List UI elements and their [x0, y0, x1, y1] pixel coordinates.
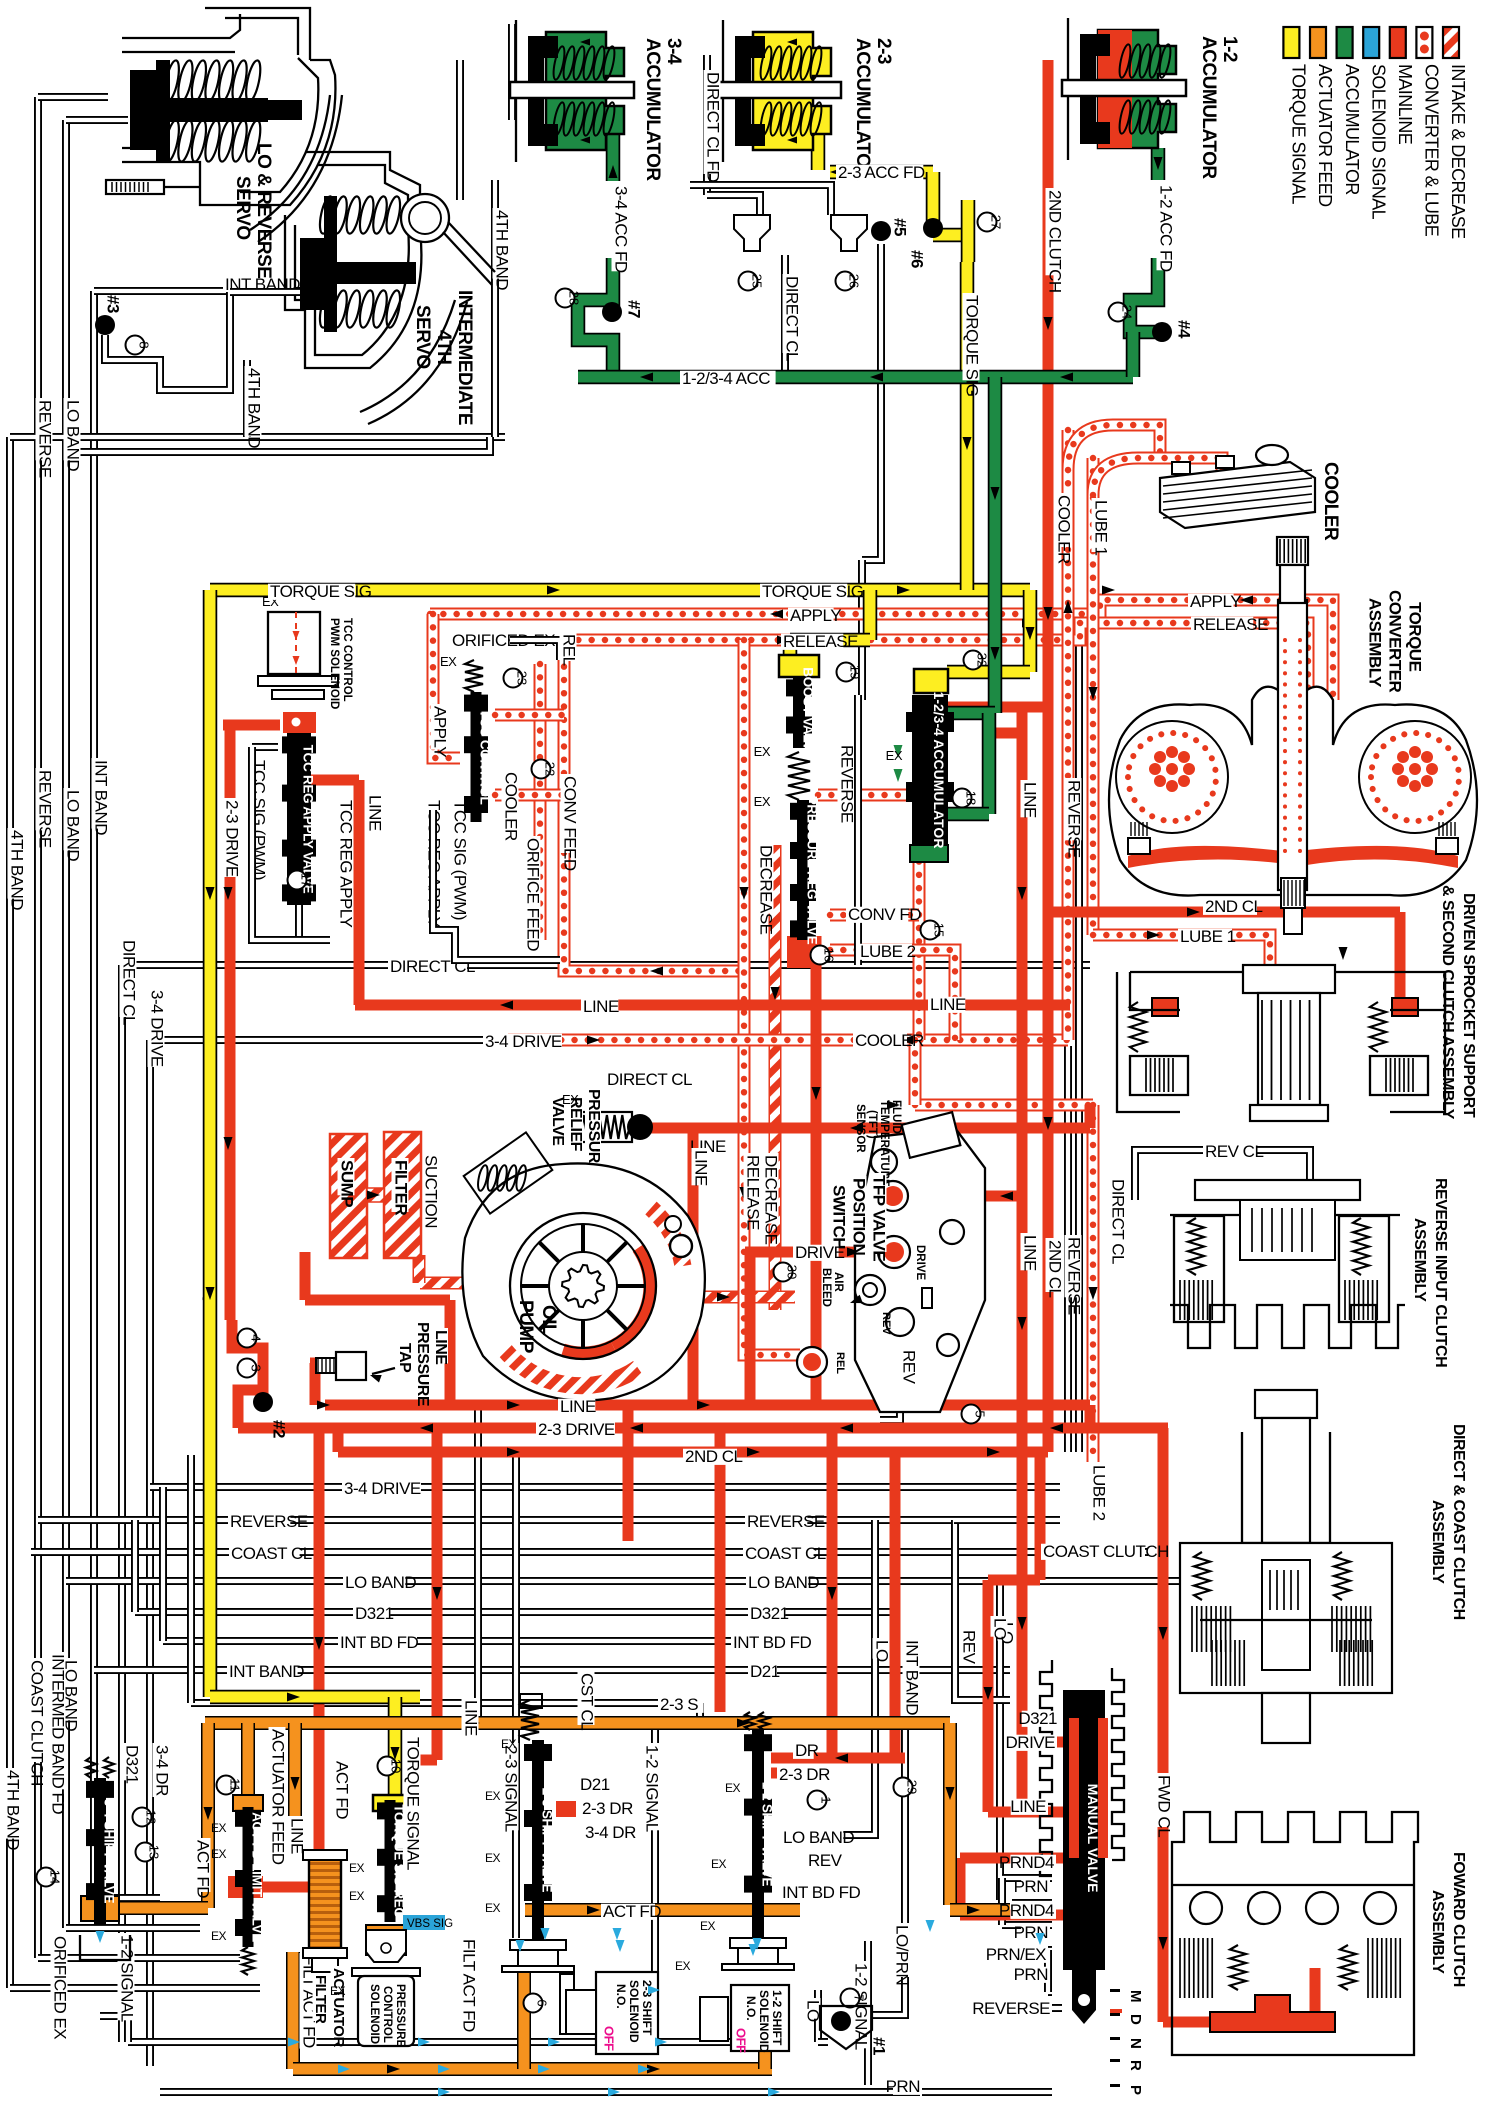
svg-text:#1: #1	[870, 2037, 889, 2055]
svg-text:SOLENOID: SOLENOID	[368, 1984, 380, 2044]
svg-text:EX: EX	[211, 1847, 227, 1861]
svg-text:R: R	[1127, 2060, 1144, 2071]
svg-text:4TH BAND: 4TH BAND	[4, 1770, 23, 1850]
svg-text:26: 26	[847, 274, 862, 288]
svg-text:28: 28	[567, 291, 582, 305]
svg-text:2-3 DR: 2-3 DR	[779, 1765, 830, 1784]
svg-text:REL: REL	[560, 634, 579, 666]
svg-text:ACT FD: ACT FD	[194, 1840, 213, 1898]
svg-text:MAINLINE: MAINLINE	[1395, 64, 1415, 145]
svg-text:LO: LO	[991, 1618, 1010, 1640]
svg-text:ACCUMULATOR: ACCUMULATOR	[1342, 64, 1362, 195]
svg-text:LINE: LINE	[560, 1397, 596, 1416]
svg-text:EX: EX	[349, 1889, 365, 1903]
svg-text:COAST CL: COAST CL	[231, 1544, 312, 1563]
svg-text:LO & REVERSE: LO & REVERSE	[253, 143, 274, 278]
svg-text:ACT FD: ACT FD	[603, 1902, 661, 1921]
svg-text:REV: REV	[900, 1350, 919, 1385]
svg-text:1-2 ACC FD: 1-2 ACC FD	[1157, 185, 1176, 272]
svg-text:TCC SIG (PWM): TCC SIG (PWM)	[451, 800, 470, 920]
svg-text:LO BAND: LO BAND	[783, 1828, 854, 1847]
svg-text:3-4 ACC FD: 3-4 ACC FD	[612, 186, 631, 273]
svg-text:LUBE 1: LUBE 1	[1180, 927, 1236, 946]
svg-text:EX: EX	[485, 1901, 501, 1915]
svg-text:4TH BAND: 4TH BAND	[493, 210, 512, 290]
svg-text:DRIVEN SPROCKET SUPPORT: DRIVEN SPROCKET SUPPORT	[1460, 893, 1477, 1118]
svg-text:EX: EX	[725, 1781, 741, 1795]
svg-text:PRESSURE: PRESSURE	[414, 1322, 431, 1407]
svg-text:VBS SIG: VBS SIG	[407, 1918, 453, 1930]
svg-text:EX: EX	[675, 1959, 691, 1973]
svg-text:DIRECT CL: DIRECT CL	[783, 276, 802, 361]
svg-text:LUBE 1: LUBE 1	[1092, 500, 1111, 556]
svg-text:32: 32	[975, 653, 990, 667]
svg-text:2-3 SIGNAL: 2-3 SIGNAL	[502, 1745, 521, 1832]
svg-text:INT BAND: INT BAND	[903, 1640, 922, 1715]
svg-text:TCC REG APPLY: TCC REG APPLY	[337, 800, 356, 927]
svg-text:DECREASE: DECREASE	[757, 845, 776, 935]
svg-text:4TH: 4TH	[433, 330, 454, 364]
svg-text:10: 10	[389, 1759, 404, 1773]
svg-text:APPLY: APPLY	[790, 606, 841, 625]
svg-text:CONVERTER & LUBE: CONVERTER & LUBE	[1422, 64, 1442, 237]
svg-text:2-3 ACC FD: 2-3 ACC FD	[838, 163, 925, 182]
svg-text:2ND CLUTCH: 2ND CLUTCH	[1046, 190, 1065, 293]
svg-text:D321: D321	[1018, 1709, 1057, 1728]
svg-text:2-3 SHIFT VALVE: 2-3 SHIFT VALVE	[540, 1788, 555, 1893]
svg-text:CST CL: CST CL	[578, 1673, 597, 1730]
svg-text:ASSEMBLY: ASSEMBLY	[1429, 1500, 1446, 1584]
svg-text:#3: #3	[104, 295, 123, 313]
svg-text:ACCUMULATOR: ACCUMULATOR	[642, 38, 663, 181]
svg-text:3-4: 3-4	[663, 38, 684, 65]
svg-text:COOLER: COOLER	[1320, 462, 1341, 541]
svg-text:LINE: LINE	[432, 1330, 449, 1365]
svg-text:ORIFICE FEED: ORIFICE FEED	[524, 838, 543, 951]
svg-text:2ND CL: 2ND CL	[1205, 897, 1263, 916]
svg-text:D21: D21	[580, 1775, 610, 1794]
svg-text:LO BAND: LO BAND	[64, 790, 83, 861]
svg-text:DIRECT & COAST CLUTCH: DIRECT & COAST CLUTCH	[1450, 1424, 1467, 1620]
svg-text:DIRECT CL: DIRECT CL	[120, 940, 139, 1025]
svg-text:CONVERTER: CONVERTER	[1386, 590, 1405, 692]
svg-text:SENSOR: SENSOR	[854, 1104, 866, 1153]
svg-text:EX: EX	[330, 1984, 346, 1998]
svg-text:ASSEMBLY: ASSEMBLY	[1366, 598, 1385, 688]
svg-text:2-3 DRIVE: 2-3 DRIVE	[538, 1420, 615, 1439]
svg-text:EX: EX	[211, 1929, 227, 1943]
svg-text:2-3 DRIVE: 2-3 DRIVE	[223, 800, 242, 877]
svg-text:DRIVE: DRIVE	[914, 1245, 926, 1280]
svg-text:REVERSE: REVERSE	[838, 745, 857, 823]
svg-text:REV: REV	[880, 1312, 892, 1335]
svg-text:23: 23	[515, 671, 530, 685]
svg-text:1-2 SIGNAL: 1-2 SIGNAL	[643, 1745, 662, 1832]
svg-text:REVERSE INPUT CLUTCH: REVERSE INPUT CLUTCH	[1432, 1178, 1449, 1367]
svg-text:TAP: TAP	[396, 1343, 413, 1373]
svg-text:4TH BAND: 4TH BAND	[8, 830, 27, 910]
svg-text:(TFT): (TFT)	[866, 1110, 878, 1139]
svg-text:25: 25	[750, 274, 765, 288]
svg-text:#7: #7	[625, 300, 644, 318]
svg-text:TORQUE SIG: TORQUE SIG	[762, 582, 863, 601]
svg-text:FOWARD CLUTCH: FOWARD CLUTCH	[1450, 1852, 1467, 1987]
svg-text:RELEASE: RELEASE	[744, 1155, 763, 1230]
svg-text:TORQUE SIG REG: TORQUE SIG REG	[392, 1804, 407, 1917]
svg-text:DIRECT CL: DIRECT CL	[607, 1070, 692, 1089]
svg-text:SWITCH: SWITCH	[830, 1185, 849, 1249]
svg-text:SERVO: SERVO	[232, 176, 253, 240]
svg-text:11: 11	[228, 1778, 243, 1792]
svg-text:INT BD FD: INT BD FD	[782, 1883, 861, 1902]
svg-text:TORQUE SIG: TORQUE SIG	[963, 295, 982, 396]
svg-text:REVERSE: REVERSE	[1065, 780, 1084, 858]
svg-text:15: 15	[932, 923, 947, 937]
svg-text:COAST CLUTCH: COAST CLUTCH	[1043, 1542, 1169, 1561]
svg-text:1: 1	[819, 1796, 834, 1803]
svg-text:SERVO: SERVO	[412, 305, 433, 369]
svg-text:TCC CONTROL: TCC CONTROL	[478, 710, 493, 805]
svg-text:SUMP: SUMP	[338, 1160, 357, 1207]
svg-text:30: 30	[785, 1265, 800, 1279]
svg-text:EX: EX	[211, 1821, 227, 1835]
svg-text:17: 17	[299, 873, 314, 887]
svg-text:ACT FD: ACT FD	[333, 1761, 352, 1819]
svg-text:SUCTION: SUCTION	[422, 1155, 441, 1228]
svg-text:LINE: LINE	[1010, 1797, 1046, 1816]
svg-text:3-4 DR: 3-4 DR	[153, 1745, 172, 1796]
svg-text:PRN: PRN	[1014, 1923, 1048, 1942]
svg-text:D321: D321	[123, 1745, 142, 1784]
svg-text:D: D	[1127, 2014, 1144, 2025]
svg-text:#5: #5	[891, 218, 910, 236]
svg-text:EX: EX	[485, 1789, 501, 1803]
svg-text:BLEED: BLEED	[820, 1268, 832, 1307]
svg-text:MANUAL VALVE: MANUAL VALVE	[1085, 1784, 1101, 1893]
svg-text:COOLER: COOLER	[502, 772, 521, 841]
svg-text:ACCUMULATOR: ACCUMULATOR	[852, 38, 873, 181]
svg-text:22: 22	[543, 762, 558, 776]
svg-text:5: 5	[973, 1410, 988, 1417]
svg-text:3-4 DRIVE: 3-4 DRIVE	[148, 990, 167, 1067]
svg-text:EX: EX	[711, 1857, 727, 1871]
svg-text:EX: EX	[501, 1737, 517, 1751]
svg-text:CONTROL: CONTROL	[381, 1986, 393, 2043]
svg-text:BOOST VALVE: BOOST VALVE	[801, 667, 816, 759]
svg-text:POSITION: POSITION	[850, 1178, 869, 1255]
svg-text:DIRECT CL FD: DIRECT CL FD	[704, 72, 723, 182]
svg-text:CONV FD: CONV FD	[848, 905, 921, 924]
svg-text:RELEASE: RELEASE	[783, 632, 858, 651]
svg-text:RELEASE: RELEASE	[1193, 615, 1268, 634]
svg-text:12: 12	[144, 1810, 159, 1824]
svg-text:INTERMEDIATE: INTERMEDIATE	[454, 290, 475, 425]
svg-text:SOLENOID SIGNAL: SOLENOID SIGNAL	[1368, 64, 1388, 220]
svg-text:D321: D321	[355, 1604, 394, 1623]
svg-text:TORQUE: TORQUE	[1406, 602, 1425, 672]
svg-text:LINE: LINE	[1021, 782, 1040, 818]
svg-text:TCC CONTROL: TCC CONTROL	[341, 618, 353, 702]
svg-text:SOLENOID: SOLENOID	[627, 1980, 641, 2043]
svg-text:PRND4: PRND4	[999, 1853, 1054, 1872]
svg-text:COAST CLUTCH: COAST CLUTCH	[28, 1660, 47, 1786]
svg-text:EX: EX	[886, 748, 903, 763]
svg-text:FILTER: FILTER	[312, 1975, 329, 2024]
svg-text:13: 13	[147, 1845, 162, 1859]
svg-text:REVERSE: REVERSE	[747, 1512, 825, 1531]
svg-text:LINE: LINE	[692, 1150, 711, 1186]
svg-text:6: 6	[535, 1999, 550, 2006]
svg-text:3-4 DR: 3-4 DR	[585, 1823, 636, 1842]
svg-text:ORIFICED EX: ORIFICED EX	[51, 1936, 70, 2039]
svg-text:OFF: OFF	[734, 2028, 749, 2053]
svg-text:REV CL: REV CL	[1205, 1142, 1263, 1161]
svg-text:ASSEMBLY: ASSEMBLY	[1429, 1890, 1446, 1974]
svg-text:N: N	[1127, 2038, 1144, 2048]
svg-text:27: 27	[989, 215, 1004, 229]
svg-text:DECREASE: DECREASE	[762, 1155, 781, 1245]
svg-text:7: 7	[852, 1994, 867, 2001]
svg-text:PWM SOLENOID: PWM SOLENOID	[328, 618, 340, 709]
svg-text:PRESSURE: PRESSURE	[394, 1984, 406, 2048]
svg-text:EX: EX	[485, 1851, 501, 1865]
svg-text:PRN: PRN	[1014, 1877, 1048, 1896]
svg-text:PRN/EX: PRN/EX	[986, 1945, 1046, 1964]
svg-text:LUBE 2: LUBE 2	[1090, 1465, 1109, 1521]
svg-text:4TH BAND: 4TH BAND	[245, 368, 264, 448]
svg-text:OIL: OIL	[538, 1305, 559, 1336]
svg-text:2ND CL: 2ND CL	[1046, 1240, 1065, 1298]
svg-text:LINE: LINE	[583, 997, 619, 1016]
svg-text:LO/PRN: LO/PRN	[893, 1925, 912, 1985]
svg-text:14: 14	[48, 1870, 63, 1884]
svg-text:REVERSE: REVERSE	[36, 400, 55, 478]
svg-text:INT BAND: INT BAND	[229, 1662, 304, 1681]
svg-text:ACT FD LIMIT VALVE: ACT FD LIMIT VALVE	[250, 1812, 265, 1942]
svg-text:REVERSE: REVERSE	[972, 1999, 1050, 2018]
svg-text:N.O.: N.O.	[744, 1996, 758, 2021]
svg-text:#4: #4	[1175, 320, 1194, 339]
svg-text:PUMP: PUMP	[515, 1300, 536, 1354]
svg-text:LINE: LINE	[462, 1700, 481, 1736]
svg-text:24: 24	[1120, 305, 1135, 319]
svg-text:APPLY: APPLY	[1190, 592, 1241, 611]
svg-text:16: 16	[822, 948, 837, 962]
svg-text:LO BAND: LO BAND	[345, 1573, 416, 1592]
svg-text:LINE: LINE	[930, 995, 966, 1014]
svg-text:REVERSE: REVERSE	[36, 770, 55, 848]
svg-text:LINE: LINE	[1021, 1235, 1040, 1271]
svg-text:3-4 SHIFT VALVE: 3-4 SHIFT VALVE	[102, 1799, 117, 1904]
svg-text:REVERSE: REVERSE	[1065, 1237, 1084, 1315]
svg-text:REL: REL	[834, 1352, 846, 1374]
svg-text:CONV FEED: CONV FEED	[561, 776, 580, 871]
svg-text:EX: EX	[754, 744, 771, 759]
svg-text:18: 18	[964, 791, 979, 805]
svg-text:2-3: 2-3	[873, 38, 894, 64]
svg-text:3-4 DRIVE: 3-4 DRIVE	[485, 1032, 562, 1051]
svg-text:EX: EX	[754, 794, 771, 809]
svg-text:ACTUATOR FEED: ACTUATOR FEED	[269, 1729, 288, 1865]
svg-text:ASSEMBLY: ASSEMBLY	[1411, 1218, 1428, 1302]
svg-text:1-2: 1-2	[1219, 36, 1240, 62]
svg-text:DR: DR	[795, 1741, 819, 1760]
svg-text:4: 4	[249, 1334, 264, 1341]
svg-text:LINE: LINE	[288, 1818, 307, 1854]
svg-text:FLUID: FLUID	[890, 1100, 902, 1134]
svg-text:TFP VALVE: TFP VALVE	[870, 1175, 889, 1261]
svg-text:29: 29	[905, 1780, 920, 1794]
svg-text:3-4 DRIVE: 3-4 DRIVE	[344, 1479, 421, 1498]
svg-text:DRIVE: DRIVE	[1006, 1733, 1056, 1752]
svg-text:APPLY: APPLY	[431, 706, 450, 757]
svg-text:PRN: PRN	[1014, 1965, 1048, 1984]
svg-text:19: 19	[848, 665, 863, 679]
svg-text:LINE: LINE	[366, 795, 385, 831]
svg-text:FILT ACT FD: FILT ACT FD	[460, 1939, 479, 2032]
svg-text:PRND4: PRND4	[999, 1901, 1054, 1920]
svg-text:EX: EX	[562, 1092, 579, 1107]
svg-text:M: M	[1127, 1990, 1144, 2002]
svg-text:INTAKE & DECREASE: INTAKE & DECREASE	[1448, 64, 1468, 239]
svg-text:8: 8	[137, 341, 152, 348]
svg-text:TORQUE SIG: TORQUE SIG	[270, 582, 371, 601]
svg-text:#6: #6	[908, 250, 927, 268]
svg-text:1-2/3-4 ACCUMULATOR: 1-2/3-4 ACCUMULATOR	[931, 692, 947, 849]
svg-text:PRESSURE REG VALVE: PRESSURE REG VALVE	[805, 796, 820, 945]
svg-text:LO: LO	[873, 1640, 892, 1662]
svg-text:SOLENOID: SOLENOID	[757, 1990, 771, 2053]
svg-text:LO BAND: LO BAND	[748, 1573, 819, 1592]
svg-text:2-3 S: 2-3 S	[660, 1695, 698, 1714]
svg-text:COAST CL: COAST CL	[745, 1544, 826, 1563]
svg-text:1-2/3-4 ACC: 1-2/3-4 ACC	[682, 369, 770, 388]
svg-text:INT BAND: INT BAND	[92, 760, 111, 835]
svg-text:P: P	[1127, 2085, 1144, 2095]
svg-text:1-2 SHIFT: 1-2 SHIFT	[770, 1990, 784, 2046]
svg-text:EX: EX	[349, 1861, 365, 1875]
svg-text:EX: EX	[440, 654, 457, 669]
svg-text:DIRECT CL: DIRECT CL	[1109, 1179, 1128, 1264]
svg-text:OFF: OFF	[602, 2026, 617, 2051]
svg-text:PRN: PRN	[886, 2077, 920, 2096]
svg-text:LO BAND: LO BAND	[64, 400, 83, 471]
svg-text:REV: REV	[808, 1851, 843, 1870]
svg-text:ACTUATOR: ACTUATOR	[330, 1968, 347, 2047]
svg-text:3: 3	[249, 1364, 264, 1371]
svg-text:ACCUMULATOR: ACCUMULATOR	[1198, 36, 1219, 179]
svg-text:REV: REV	[960, 1630, 979, 1665]
svg-text:D321: D321	[750, 1604, 789, 1623]
svg-text:INT BD FD: INT BD FD	[340, 1633, 419, 1652]
svg-text:D21: D21	[750, 1662, 780, 1681]
svg-text:1-2 SIGNAL: 1-2 SIGNAL	[118, 1935, 137, 2022]
svg-text:FILTER: FILTER	[392, 1160, 411, 1215]
svg-text:ACTUATOR FEED: ACTUATOR FEED	[1315, 64, 1335, 207]
svg-text:2ND CL: 2ND CL	[685, 1447, 743, 1466]
svg-text:#2: #2	[270, 1420, 289, 1438]
svg-text:N.O.: N.O.	[614, 1984, 628, 2009]
svg-text:2-3 DR: 2-3 DR	[582, 1799, 633, 1818]
svg-text:EX: EX	[700, 1919, 716, 1933]
svg-text:LUBE 2: LUBE 2	[860, 942, 916, 961]
svg-text:INTERMED BAND FD: INTERMED BAND FD	[49, 1654, 68, 1814]
svg-text:& SECOND CLUTCH ASSEMBLY: & SECOND CLUTCH ASSEMBLY	[1439, 885, 1456, 1120]
svg-text:INT BD FD: INT BD FD	[733, 1633, 812, 1652]
svg-text:PRESSURE: PRESSURE	[585, 1089, 602, 1174]
svg-text:COOLER: COOLER	[1055, 495, 1074, 564]
svg-text:AIR: AIR	[832, 1272, 844, 1293]
svg-text:DRIVE: DRIVE	[795, 1243, 845, 1262]
svg-text:COOLER: COOLER	[855, 1031, 924, 1050]
svg-text:REVERSE: REVERSE	[230, 1512, 308, 1531]
svg-text:TORQUE SIGNAL: TORQUE SIGNAL	[1289, 64, 1309, 204]
svg-text:FWD CL: FWD CL	[1155, 1775, 1174, 1837]
svg-text:1-2 SHIFT VALVE: 1-2 SHIFT VALVE	[760, 1782, 775, 1887]
